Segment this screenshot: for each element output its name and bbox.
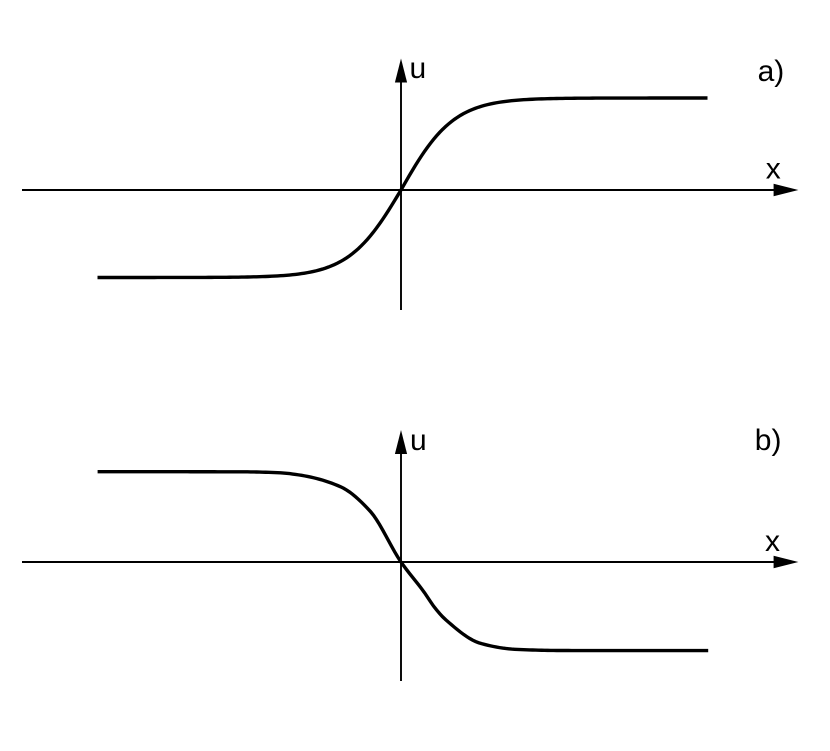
y-axis (plot a) [400,80,402,310]
svg-text:u: u [410,424,427,457]
curve b (antikink) [98,472,709,651]
x-axis (plot a) [22,189,776,191]
y-axis arrowhead (plot a) [395,59,407,83]
y-axis arrowhead (plot b) [395,430,407,454]
svg-text:x: x [766,152,781,185]
curve a (kink) [98,98,708,278]
svg-text:x: x [765,525,780,558]
y-axis (plot b) [400,452,402,681]
x-axis arrowhead (plot b) [774,556,799,568]
x-axis (plot b) [22,561,776,563]
svg-text:u: u [410,52,427,85]
svg-text:b): b) [755,424,782,457]
svg-text:a): a) [758,55,785,88]
x-axis arrowhead (plot a) [774,184,799,196]
